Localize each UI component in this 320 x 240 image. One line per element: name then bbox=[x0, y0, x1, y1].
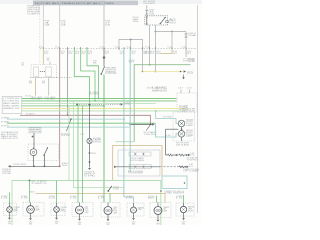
wire E4 tail stop lamp feed stub bbox=[79, 203, 81, 207]
svg-text:(RR): (RR) bbox=[29, 223, 33, 225]
node resistor 2 bbox=[186, 154, 188, 156]
pin stub module 2 bbox=[189, 90, 191, 94]
node ash 2 bbox=[89, 161, 91, 163]
svg-text:HOT AT ALL TIMES HOT AT ALL: HOT AT ALL TIMES HOT AT ALL bbox=[35, 2, 101, 5]
svg-text:WT: WT bbox=[129, 62, 135, 64]
svg-text:BK: BK bbox=[148, 198, 155, 200]
lamp L1 dial bbox=[30, 149, 37, 156]
component C row1 rects bbox=[129, 152, 135, 156]
node yellow end bbox=[180, 71, 182, 73]
ground E3 license lamp right bbox=[55, 218, 58, 220]
svg-text:W/ SPOILER: W/ SPOILER bbox=[182, 109, 196, 111]
svg-text:STOP: STOP bbox=[186, 134, 193, 136]
arrow yellow end bbox=[184, 70, 186, 73]
wire stub down text bbox=[146, 125, 150, 131]
svg-text:C1: C1 bbox=[39, 46, 43, 48]
svg-text:G400: G400 bbox=[182, 222, 186, 224]
svg-text:S401: S401 bbox=[113, 186, 119, 188]
svg-text:SYSTEM: SYSTEM bbox=[2, 173, 12, 175]
wire pale row mid bbox=[74, 101, 125, 188]
svg-text:(RR): (RR) bbox=[8, 223, 12, 225]
wire below lamp L4 bbox=[181, 137, 183, 141]
svg-text:POSITION: POSITION bbox=[105, 73, 116, 75]
node bus a bbox=[33, 165, 35, 167]
svg-text:18 BK/: 18 BK/ bbox=[49, 196, 56, 198]
svg-text:18 BK/: 18 BK/ bbox=[70, 196, 77, 198]
relay K1 switch bbox=[160, 17, 165, 23]
svg-text:C1: C1 bbox=[126, 46, 130, 48]
right page border bbox=[197, 5, 199, 213]
node main junction bbox=[103, 57, 105, 59]
arrow dashdot bbox=[186, 166, 188, 169]
arrow into box bbox=[114, 166, 116, 169]
svg-text:WT: WT bbox=[187, 53, 192, 55]
svg-text:LICENSE: LICENSE bbox=[14, 207, 20, 209]
svg-text:STOP: STOP bbox=[186, 123, 193, 125]
node teal2 cross bbox=[129, 124, 131, 126]
wire gray below box B bbox=[48, 78, 50, 96]
svg-text:COMPT): COMPT) bbox=[27, 14, 41, 16]
tan wire bottom run bbox=[36, 194, 165, 203]
relay K1 right pin bbox=[166, 21, 168, 23]
svg-text:18 BK: 18 BK bbox=[62, 165, 68, 167]
node resistor bbox=[176, 154, 178, 156]
svg-text:LP: LP bbox=[191, 153, 195, 155]
svg-text:STOP: STOP bbox=[113, 211, 117, 213]
connector C204 dashed line bbox=[30, 77, 72, 79]
svg-text:WT: WT bbox=[173, 53, 178, 55]
wire maroon row bbox=[20, 114, 151, 116]
svg-text:C1: C1 bbox=[145, 46, 149, 48]
svg-text:TOW PKG: TOW PKG bbox=[187, 159, 199, 161]
svg-text:18 WT: 18 WT bbox=[165, 135, 171, 137]
svg-text:RT TURN SIG: RT TURN SIG bbox=[3, 101, 20, 103]
wire teal to lamp6 bbox=[124, 197, 134, 203]
wire yellow horizontal bbox=[141, 71, 183, 73]
wire tan elbow top bbox=[160, 49, 172, 54]
svg-text:S301: S301 bbox=[91, 153, 96, 155]
svg-text:C1: C1 bbox=[182, 46, 186, 48]
wire switch S2 down bbox=[44, 155, 46, 166]
wire bus component bbox=[117, 166, 161, 168]
dashed box right lamps bbox=[173, 112, 195, 141]
wire green V 69 bbox=[68, 106, 70, 181]
wire dark vertical right bbox=[165, 129, 167, 155]
svg-text:OR START: OR START bbox=[143, 2, 155, 5]
wire teal vertical 2 bbox=[129, 49, 131, 173]
svg-text:S303: S303 bbox=[62, 163, 68, 165]
lamp L2 ashtray bbox=[87, 138, 92, 143]
wire pale green elbow bbox=[116, 141, 135, 143]
wire drop 142 to yellow bbox=[142, 49, 144, 72]
bus left arrow bbox=[8, 165, 10, 168]
left frame dotted border bbox=[39, 5, 41, 63]
svg-text:C2: C2 bbox=[189, 166, 193, 168]
svg-text:W/O SPOILER: W/O SPOILER bbox=[176, 143, 189, 145]
splice pointer diagonal bbox=[66, 120, 71, 132]
svg-text:G301: G301 bbox=[84, 172, 95, 174]
component C row2 rects bbox=[129, 165, 135, 169]
link dashed row bbox=[77, 104, 121, 106]
dashed box E8 marker right bbox=[176, 203, 194, 216]
svg-text:STOP: STOP bbox=[85, 210, 89, 212]
node V4 join bbox=[98, 98, 100, 100]
wire green vertical V4 with bend bbox=[87, 49, 98, 99]
wire yellow row 5 bbox=[22, 107, 186, 109]
svg-text:18: 18 bbox=[42, 81, 46, 83]
svg-text:G400: G400 bbox=[55, 221, 59, 223]
dashed box E7 trailer lamp bbox=[150, 203, 171, 218]
box B contact dots bbox=[40, 71, 41, 72]
node below label bbox=[32, 136, 34, 138]
dashed box E3 license lamp right bbox=[51, 203, 65, 216]
svg-text:18 TN: 18 TN bbox=[145, 51, 151, 53]
wire fuse B1 drop bbox=[42, 5, 44, 48]
node link a bbox=[76, 104, 78, 106]
wire dark green horizontal bbox=[134, 65, 190, 142]
ground E7 trailer lamp bbox=[157, 220, 160, 222]
node teal row1 bbox=[123, 118, 125, 120]
svg-text:C1: C1 bbox=[115, 46, 119, 48]
box B pin rect 2 bbox=[46, 67, 52, 77]
svg-text:STOP: STOP bbox=[36, 208, 40, 210]
wire fuse to relay bbox=[146, 15, 148, 17]
dashed box E4 tail stop lamp bbox=[72, 203, 93, 217]
wire arrow line bbox=[130, 123, 152, 125]
wire lamps feed left bbox=[166, 128, 179, 130]
svg-text:SEE FIG 21-3: SEE FIG 21-3 bbox=[1, 138, 18, 140]
svg-text:C2: C2 bbox=[187, 73, 194, 75]
svg-text:TIMES: TIMES bbox=[104, 3, 115, 5]
lamp E1 license lamp bbox=[7, 207, 13, 213]
svg-text:(RR): (RR) bbox=[182, 223, 186, 225]
svg-text:MOUNT: MOUNT bbox=[186, 132, 193, 134]
node ash 1 bbox=[89, 152, 91, 154]
node dashdot bbox=[184, 166, 186, 168]
wire teal vertical 1 bbox=[123, 49, 125, 198]
wire ashtray drop bbox=[89, 105, 91, 139]
svg-text:WT: WT bbox=[68, 53, 73, 55]
wire E3 license lamp right ground lead bbox=[56, 212, 58, 217]
lamp E7 trailer lamp bbox=[154, 207, 162, 215]
svg-text:GY: GY bbox=[42, 83, 46, 85]
wire teal row 2 bbox=[7, 126, 130, 128]
svg-text:(RR): (RR) bbox=[78, 224, 82, 225]
wire pale elbow right bbox=[156, 111, 178, 124]
wire dark green run bbox=[149, 49, 151, 65]
ground E6 marker lamp bbox=[132, 218, 135, 220]
wire lamp4 feed b bbox=[82, 106, 84, 203]
node row4 join bbox=[103, 105, 105, 107]
node teal box bbox=[184, 182, 186, 184]
svg-text:WT: WT bbox=[81, 53, 86, 55]
wire bus tee bbox=[119, 40, 143, 49]
fuse F9 bbox=[146, 10, 148, 15]
svg-text:(RIGHT): (RIGHT) bbox=[188, 210, 194, 212]
svg-text:WT: WT bbox=[88, 53, 93, 55]
wire resistor line 2 bbox=[184, 154, 187, 156]
svg-text:LEFT: LEFT bbox=[85, 206, 89, 208]
component box C outline bbox=[118, 150, 160, 176]
wire branch2 drop bbox=[171, 32, 173, 49]
svg-text:S402: S402 bbox=[30, 191, 35, 193]
diagram background bbox=[0, 0, 202, 225]
node yellow 142 bbox=[142, 71, 144, 73]
arrow resistor bbox=[188, 154, 190, 157]
svg-text:G400: G400 bbox=[156, 223, 160, 225]
wire E2 tail lamp left feed stub bbox=[30, 203, 32, 206]
wire green row 4 bbox=[22, 105, 104, 107]
svg-text:18 BK/: 18 BK/ bbox=[21, 196, 28, 198]
dash-dot wire lower right bbox=[160, 166, 185, 168]
svg-text:C1: C1 bbox=[191, 155, 195, 157]
svg-text:(LEFT): (LEFT) bbox=[14, 211, 19, 213]
wire E5 tail stop lamp right feed stub bbox=[107, 203, 109, 207]
node splice pointer bbox=[70, 118, 72, 120]
svg-text:SWITCH: SWITCH bbox=[30, 131, 41, 133]
svg-text:CONNECTOR SIDE OF: CONNECTOR SIDE OF bbox=[164, 191, 184, 193]
svg-text:SW: SW bbox=[133, 21, 140, 23]
svg-text:18 BK: 18 BK bbox=[113, 188, 119, 190]
resistor R1 bbox=[168, 154, 173, 156]
node body box bbox=[29, 180, 31, 182]
svg-text:LIGHTING: LIGHTING bbox=[2, 171, 12, 173]
node V1 maroon junction bbox=[67, 114, 69, 116]
node branch2 bbox=[171, 31, 173, 33]
node bus b bbox=[44, 165, 46, 167]
dashed box lamp outage module bbox=[177, 93, 197, 112]
wire right stub bbox=[185, 49, 187, 58]
svg-text:SHIFT: SHIFT bbox=[169, 21, 176, 23]
svg-text:INTERIOR: INTERIOR bbox=[2, 169, 12, 171]
connector C100 dashed line bbox=[40, 48, 197, 50]
svg-text:HIGH: HIGH bbox=[186, 130, 193, 132]
svg-text:WT: WT bbox=[156, 53, 161, 55]
resistor R3 bbox=[179, 166, 184, 168]
wire teal into lamp L4 bbox=[155, 123, 178, 137]
node between lamps bbox=[181, 128, 183, 130]
wire tan drop to box bbox=[42, 49, 44, 65]
svg-text:CTR): CTR) bbox=[84, 175, 96, 177]
wire green row lo bbox=[7, 122, 155, 124]
lamp L1 ticks bbox=[33, 148, 35, 149]
dashed box E2 tail lamp left bbox=[23, 203, 44, 217]
wire yellow run bbox=[154, 49, 156, 72]
switch box A outline bbox=[2, 97, 22, 114]
svg-text:18 DG/: 18 DG/ bbox=[129, 60, 136, 62]
wire ltgreen vertical V1 bbox=[67, 49, 69, 116]
wire between lamps bbox=[181, 127, 183, 130]
svg-text:MOUNT: MOUNT bbox=[186, 121, 193, 123]
wire lamp7 feed a bbox=[156, 196, 158, 203]
svg-text:C2: C2 bbox=[145, 53, 152, 55]
wire E1 license lamp feed stub bbox=[9, 203, 11, 207]
svg-text:(LEFT SIDE: (LEFT SIDE bbox=[27, 10, 41, 12]
svg-text:C1: C1 bbox=[100, 46, 104, 48]
svg-text:RIGHT: RIGHT bbox=[113, 207, 118, 209]
ground E4 tail stop lamp bbox=[78, 219, 81, 221]
lamp E2 tail lamp left bbox=[27, 206, 35, 214]
dashed box headlamp switch bbox=[28, 144, 59, 161]
svg-text:18 WT/BK: 18 WT/BK bbox=[163, 117, 172, 119]
hot-at-all-times header bar bbox=[33, 1, 138, 6]
svg-text:CENTER: CENTER bbox=[27, 8, 42, 10]
node relay split bbox=[155, 31, 157, 33]
svg-text:OF ENGINE: OF ENGINE bbox=[27, 12, 41, 14]
splice arrow bottom bbox=[108, 186, 112, 191]
svg-text:G400: G400 bbox=[132, 222, 136, 224]
svg-text:18 TN/: 18 TN/ bbox=[148, 196, 155, 198]
svg-text:FUSE 13: FUSE 13 bbox=[188, 33, 196, 35]
wire center upper bbox=[103, 49, 105, 67]
svg-text:(BEHIND I/P: (BEHIND I/P bbox=[84, 174, 95, 176]
pin stub module 1 bbox=[180, 90, 182, 94]
node yellow bbox=[155, 71, 157, 73]
node arrow line bbox=[150, 124, 152, 126]
svg-text:C2: C2 bbox=[124, 104, 131, 106]
ground E1 license lamp bbox=[8, 218, 11, 220]
svg-text:(2W): (2W) bbox=[93, 142, 102, 144]
wire pointer down bbox=[183, 75, 185, 78]
switch S2 diagonal bbox=[44, 148, 48, 156]
wire E7 trailer lamp ground lead bbox=[157, 215, 159, 220]
tan harness outline bbox=[113, 146, 162, 181]
svg-text:18 BK S302: 18 BK S302 bbox=[13, 164, 26, 166]
svg-text:C2 7: C2 7 bbox=[178, 88, 183, 90]
wire center green main bbox=[103, 75, 105, 203]
lamp L4 stop 2 bbox=[178, 131, 185, 138]
wire maroon elbow bbox=[150, 115, 152, 124]
wire relay feed bbox=[146, 5, 148, 10]
svg-text:WT: WT bbox=[105, 53, 110, 55]
wire green vertical V3 with bend bbox=[81, 49, 95, 101]
node bus maroon bbox=[59, 165, 61, 167]
wire lamp L1 down bbox=[33, 157, 35, 166]
wire E6 marker lamp ground lead bbox=[133, 213, 135, 218]
svg-text:18 BK/: 18 BK/ bbox=[126, 196, 133, 198]
node dkgreen bbox=[149, 64, 151, 66]
wire pale row 3 bbox=[22, 102, 156, 104]
dashed box E5 tail stop lamp right bbox=[101, 203, 120, 218]
lamp E4 tail stop lamp bbox=[76, 206, 84, 214]
svg-text:S234: S234 bbox=[89, 94, 99, 96]
svg-text:(RR): (RR) bbox=[132, 223, 136, 225]
relay K1 coil pin bbox=[146, 17, 148, 25]
wire pale row 6 bbox=[22, 110, 186, 112]
node pale elbow bbox=[155, 110, 157, 112]
svg-text:WT: WT bbox=[150, 53, 155, 55]
ground E8 marker right bbox=[182, 218, 185, 220]
wire tan below box B bbox=[35, 78, 37, 96]
wire pale elbow down bbox=[123, 187, 125, 189]
wire teal row 1 bbox=[7, 118, 124, 120]
wire E1 license lamp ground lead bbox=[9, 212, 11, 217]
relay K1 box bbox=[145, 16, 168, 25]
wire gray stub to box bbox=[49, 62, 51, 65]
connector C100 pin ticks bbox=[42, 47, 44, 50]
fuse F13 bbox=[185, 34, 187, 38]
node bus center bbox=[130, 39, 132, 41]
svg-text:18 BK/: 18 BK/ bbox=[98, 196, 105, 198]
wire right fuse drop bbox=[185, 32, 187, 34]
wire maroon main vertical bbox=[59, 49, 61, 167]
component box B dashed bbox=[31, 65, 57, 78]
svg-text:C1: C1 bbox=[55, 46, 59, 48]
bus wire lower left bbox=[9, 165, 60, 167]
svg-text:WT: WT bbox=[75, 53, 80, 55]
wire label to lamp bbox=[33, 133, 35, 148]
wire relay pin2 drop bbox=[149, 25, 151, 49]
svg-text:C2: C2 bbox=[47, 58, 50, 60]
svg-text:(RR): (RR) bbox=[55, 223, 59, 225]
wire E5 tail stop lamp right ground lead bbox=[107, 215, 109, 220]
svg-text:LT TURN SIG: LT TURN SIG bbox=[3, 98, 20, 100]
dashed box E6 marker lamp bbox=[127, 203, 144, 216]
wire green row 2 bbox=[22, 100, 177, 102]
resistor R2 bbox=[179, 154, 184, 156]
wire lamp3 feed bbox=[56, 181, 58, 204]
svg-text:POWER DIST: POWER DIST bbox=[27, 6, 40, 8]
svg-text:LP: LP bbox=[189, 164, 193, 166]
dashed box E1 license lamp bbox=[4, 203, 17, 216]
svg-text:G400: G400 bbox=[78, 222, 82, 224]
wire E2 tail lamp left ground lead bbox=[30, 213, 32, 218]
ground E5 tail stop lamp right bbox=[107, 219, 110, 221]
wire E8 marker right ground lead bbox=[183, 213, 185, 218]
svg-text:LICENSE: LICENSE bbox=[61, 207, 67, 209]
svg-text:TOW PKG: TOW PKG bbox=[144, 134, 159, 136]
svg-text:(RIGHT): (RIGHT) bbox=[61, 211, 67, 213]
wire bus center drop bbox=[130, 40, 132, 49]
wire E4 tail stop lamp ground lead bbox=[79, 214, 81, 219]
svg-text:WT: WT bbox=[60, 53, 65, 55]
node link b bbox=[89, 104, 91, 106]
component C row2 dots bbox=[135, 166, 136, 167]
svg-text:WT: WT bbox=[131, 53, 136, 55]
svg-text:HIGH: HIGH bbox=[186, 119, 193, 121]
svg-text:(RR): (RR) bbox=[106, 224, 110, 225]
wire E7 trailer lamp feed stub bbox=[157, 203, 159, 207]
svg-text:WT: WT bbox=[44, 53, 49, 55]
svg-text:C3: C3 bbox=[21, 63, 24, 65]
svg-text:18: 18 bbox=[93, 60, 97, 62]
ground E2 tail lamp left bbox=[29, 218, 32, 220]
wire fuse B2 drop bbox=[59, 5, 61, 48]
headlamp switch label box bbox=[29, 128, 41, 133]
lamp E3 license lamp right bbox=[54, 207, 60, 213]
wire E8 marker right feed stub bbox=[183, 203, 185, 206]
link arrow bbox=[121, 103, 123, 106]
svg-text:18: 18 bbox=[29, 81, 33, 83]
wire branch right bbox=[155, 31, 186, 33]
svg-text:BK: BK bbox=[93, 62, 97, 64]
component C row1 dots bbox=[135, 153, 136, 154]
node V3 join bbox=[94, 100, 96, 102]
svg-text:SWITCH JUMPER: SWITCH JUMPER bbox=[130, 160, 144, 162]
wire resistor line bbox=[166, 154, 168, 156]
wire ashtray lower bbox=[89, 144, 91, 168]
svg-text:TOW CONN: TOW CONN bbox=[183, 60, 195, 62]
svg-text:G400: G400 bbox=[106, 223, 110, 225]
svg-text:C1: C1 bbox=[168, 46, 172, 48]
svg-text:G400: G400 bbox=[29, 222, 33, 224]
wire lamp5 feed b bbox=[109, 194, 111, 203]
teal connector box bbox=[162, 176, 187, 189]
svg-text:18 BK/: 18 BK/ bbox=[1, 196, 8, 198]
lamp L3 stop bbox=[178, 120, 185, 127]
lamp E6 marker lamp bbox=[131, 207, 137, 213]
box B pin rect 1 bbox=[34, 67, 39, 77]
